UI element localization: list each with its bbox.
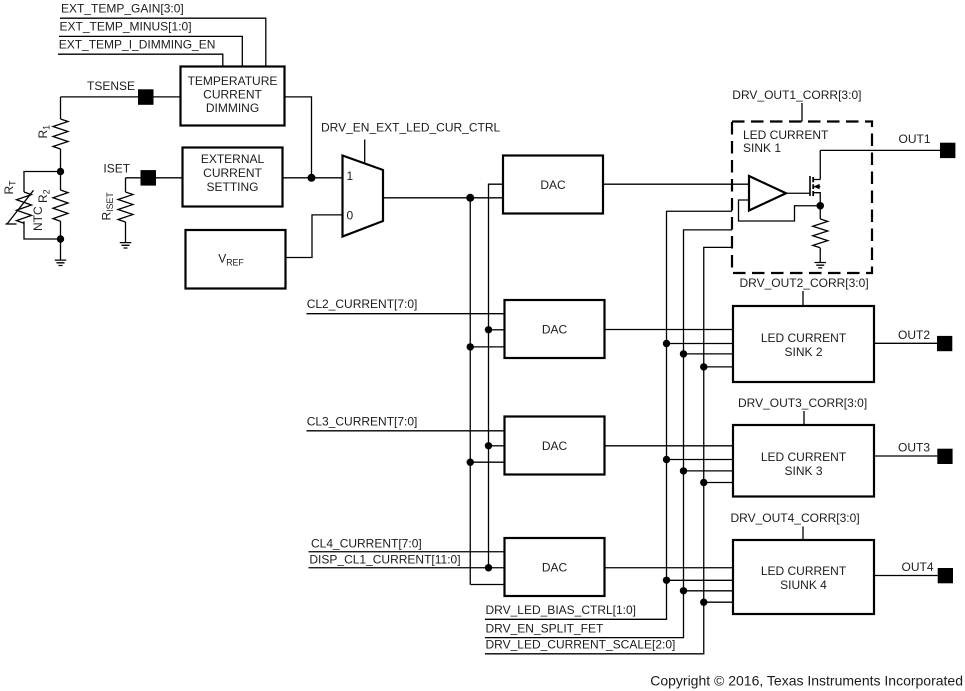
wire op-amp output to gate bbox=[786, 192, 810, 194]
mux U2 (2:1 selector) bbox=[343, 156, 384, 237]
svg-text:CURRENT: CURRENT bbox=[203, 88, 262, 102]
wire VREF output to mux input 0 bbox=[286, 215, 343, 258]
svg-text:EXT_TEMP_I_DIMMING_EN: EXT_TEMP_I_DIMMING_EN bbox=[59, 38, 216, 52]
wire ECS output to mux input 1 bbox=[283, 177, 343, 179]
wire SCALE branch to sink4 bbox=[704, 601, 733, 603]
svg-text:DAC: DAC bbox=[542, 323, 568, 337]
thermistor RT (NTC) bbox=[2, 172, 61, 240]
wire SCALE branch to sink2 bbox=[704, 366, 733, 368]
node SCALE/sink4 bbox=[700, 599, 707, 606]
wire SPLIT_FET branch to sink2 bbox=[684, 353, 734, 355]
signal EXT_TEMP_I_DIMMING_EN bbox=[58, 38, 223, 67]
node DISP_CL1 junction bbox=[485, 564, 492, 571]
svg-text:LED CURRENT: LED CURRENT bbox=[761, 450, 847, 464]
signal DRV_OUT1_CORR[3:0] bbox=[732, 88, 861, 122]
wire DAC3 output to sink3 bbox=[605, 445, 734, 447]
svg-text:CL2_CURRENT[7:0]: CL2_CURRENT[7:0] bbox=[307, 297, 418, 311]
block DAC 1 bbox=[503, 156, 603, 214]
node R2/RT bottom junction bbox=[57, 235, 64, 242]
node MOSFET source junction bbox=[816, 202, 824, 210]
block LED CURRENT SINK 3 bbox=[733, 425, 874, 497]
node branch DAC3 input bbox=[485, 442, 492, 449]
block DAC 4 bbox=[505, 538, 605, 596]
svg-text:EXT_TEMP_MINUS[1:0]: EXT_TEMP_MINUS[1:0] bbox=[60, 20, 192, 34]
svg-text:NTC: NTC bbox=[31, 206, 45, 231]
svg-text:EXTERNAL: EXTERNAL bbox=[201, 152, 265, 166]
svg-text:DRV_OUT1_CORR[3:0]: DRV_OUT1_CORR[3:0] bbox=[732, 88, 861, 102]
block LED CURRENT SINK 1 (dashed) bbox=[732, 122, 872, 274]
signal CL4_CURRENT[7:0] bbox=[309, 536, 505, 551]
svg-text:LED CURRENT: LED CURRENT bbox=[743, 128, 829, 142]
signal EXT_TEMP_GAIN[3:0] bbox=[60, 2, 266, 67]
svg-text:SINK 1: SINK 1 bbox=[743, 141, 781, 155]
wire SCALE branch to sink3 bbox=[704, 482, 733, 484]
svg-text:SINK 3: SINK 3 bbox=[784, 464, 822, 478]
resistor R3 (sink1 sense) bbox=[813, 206, 828, 263]
node BIAS/sink3 bbox=[663, 456, 670, 463]
block EXTERNAL CURRENT SETTING bbox=[183, 148, 283, 207]
svg-text:OUT2: OUT2 bbox=[898, 328, 930, 342]
ground (R2 bottom) bbox=[55, 239, 67, 266]
signal DISP_CL1_CURRENT[11:0] bbox=[309, 552, 505, 567]
svg-text:TSENSE: TSENSE bbox=[87, 79, 135, 93]
wire branch to DAC3 bbox=[470, 461, 504, 463]
svg-text:DAC: DAC bbox=[542, 561, 568, 575]
signal DRV_EN_SPLIT_FET bus bbox=[485, 230, 732, 638]
signal DRV_OUT2_CORR[3:0] bbox=[740, 276, 869, 306]
block DAC 2 bbox=[505, 300, 605, 358]
svg-text:Copyright © 2016, Texas Instru: Copyright © 2016, Texas Instruments Inco… bbox=[650, 673, 963, 689]
wire SPLIT_FET branch to sink3 bbox=[684, 470, 734, 472]
signal DRV_OUT4_CORR[3:0] bbox=[731, 511, 860, 540]
signal DRV_EN_EXT_LED_CUR_CTRL (mux select) bbox=[321, 121, 501, 165]
node TSENSE bbox=[61, 79, 181, 105]
wire DAC2 output to sink2 bbox=[605, 329, 734, 331]
wire branch to DAC2 input bbox=[489, 329, 505, 331]
svg-text:OUT3: OUT3 bbox=[898, 440, 930, 454]
node R1/R2/RT junction bbox=[57, 168, 64, 175]
wire branch to DAC2 bbox=[470, 346, 504, 348]
node branch DAC2 bbox=[467, 343, 474, 350]
node BIAS/sink4 bbox=[663, 577, 670, 584]
wire DAC1 output to op-amp bbox=[603, 183, 749, 185]
svg-text:DISP_CL1_CURRENT[11:0]: DISP_CL1_CURRENT[11:0] bbox=[309, 552, 460, 566]
svg-text:CL4_CURRENT[7:0]: CL4_CURRENT[7:0] bbox=[311, 536, 422, 550]
svg-text:0: 0 bbox=[347, 208, 354, 222]
svg-text:ISET: ISET bbox=[103, 162, 130, 176]
svg-text:DRV_LED_CURRENT_SCALE[2:0]: DRV_LED_CURRENT_SCALE[2:0] bbox=[486, 638, 676, 652]
node OUT4 bbox=[874, 560, 953, 583]
svg-text:1: 1 bbox=[347, 169, 354, 183]
wire branch to DAC4 bbox=[470, 584, 504, 586]
node OUT1 bbox=[820, 132, 955, 158]
wire R1 to junction bbox=[60, 149, 62, 190]
node SCALE/sink2 bbox=[700, 363, 707, 370]
node SPLIT_FET/sink2 bbox=[680, 350, 687, 357]
svg-text:SINK 2: SINK 2 bbox=[784, 345, 822, 359]
wire BIAS branch to sink2 bbox=[667, 343, 734, 345]
node mux output junction bbox=[466, 194, 474, 202]
svg-text:DRV_EN_SPLIT_FET: DRV_EN_SPLIT_FET bbox=[486, 621, 604, 635]
signal CL3_CURRENT[7:0] bbox=[307, 415, 505, 431]
svg-text:DRV_LED_BIAS_CTRL[1:0]: DRV_LED_BIAS_CTRL[1:0] bbox=[486, 603, 637, 617]
svg-text:DRV_OUT2_CORR[3:0]: DRV_OUT2_CORR[3:0] bbox=[740, 276, 869, 290]
svg-text:DAC: DAC bbox=[542, 439, 568, 453]
svg-text:LED CURRENT: LED CURRENT bbox=[761, 331, 847, 345]
resistor R2 bbox=[36, 189, 68, 221]
signal DRV_OUT3_CORR[3:0] bbox=[738, 396, 867, 425]
wire DAC4 output to sink4 bbox=[605, 567, 734, 569]
svg-text:DAC: DAC bbox=[540, 178, 566, 192]
node SCALE/sink3 bbox=[700, 479, 707, 486]
transistor M1 (NMOS) bbox=[810, 176, 820, 206]
block TEMPERATURE CURRENT DIMMING bbox=[181, 67, 285, 126]
svg-text:CL3_CURRENT[7:0]: CL3_CURRENT[7:0] bbox=[307, 415, 418, 429]
signal DRV_LED_BIAS_CTRL[1:0] bus bbox=[485, 211, 732, 619]
block VREF bbox=[186, 230, 286, 289]
wire branch to DAC3 input bbox=[489, 445, 505, 447]
signal EXT_TEMP_MINUS[1:0] bbox=[59, 20, 242, 67]
svg-text:DRV_OUT3_CORR[3:0]: DRV_OUT3_CORR[3:0] bbox=[738, 396, 867, 410]
svg-text:DRV_EN_EXT_LED_CUR_CTRL: DRV_EN_EXT_LED_CUR_CTRL bbox=[321, 121, 501, 135]
ground (RISET) bbox=[120, 243, 132, 248]
resistor RISET bbox=[100, 178, 134, 243]
node BIAS/sink2 bbox=[663, 340, 670, 347]
signal CL2_CURRENT[7:0] bbox=[307, 297, 505, 314]
block LED CURRENT SIUNK 4 bbox=[733, 540, 874, 614]
node branch DAC2 input bbox=[485, 326, 492, 333]
wire TEMP DIMMING output bbox=[285, 97, 312, 178]
block DAC 3 bbox=[505, 417, 605, 475]
svg-text:DIMMING: DIMMING bbox=[206, 101, 259, 115]
wire BIAS branch to sink3 bbox=[667, 459, 734, 461]
wire TSENSE to R1 bbox=[60, 97, 62, 119]
svg-text:SIUNK 4: SIUNK 4 bbox=[780, 578, 827, 592]
svg-text:SETTING: SETTING bbox=[206, 180, 258, 194]
wire drain to OUT1 bbox=[819, 150, 821, 179]
wire op-amp feedback bbox=[739, 200, 821, 221]
node branch DAC3 bbox=[467, 459, 474, 466]
wire R2 to ground node bbox=[60, 221, 62, 239]
ground (sink1) bbox=[815, 263, 827, 268]
block LED CURRENT SINK 2 bbox=[733, 306, 874, 382]
svg-text:CURRENT: CURRENT bbox=[203, 166, 262, 180]
svg-text:DRV_OUT4_CORR[3:0]: DRV_OUT4_CORR[3:0] bbox=[731, 511, 860, 525]
wire BIAS branch to sink4 bbox=[667, 579, 734, 581]
svg-text:EXT_TEMP_GAIN[3:0]: EXT_TEMP_GAIN[3:0] bbox=[61, 2, 184, 16]
svg-text:OUT4: OUT4 bbox=[902, 560, 934, 574]
op-amp U1 bbox=[749, 176, 786, 211]
node SPLIT_FET/sink4 bbox=[680, 587, 687, 594]
signal DRV_LED_CURRENT_SCALE[2:0] bus bbox=[485, 247, 732, 653]
node TEMP/ECS junction bbox=[308, 174, 316, 182]
svg-text:LED CURRENT: LED CURRENT bbox=[761, 564, 847, 578]
wire DISP_CL1 bus (vertical x=488.5) bbox=[489, 184, 504, 568]
node OUT3 bbox=[874, 440, 953, 464]
node OUT2 bbox=[874, 328, 952, 351]
resistor R1 bbox=[36, 119, 68, 149]
wire SPLIT_FET branch to sink4 bbox=[684, 590, 734, 592]
svg-text:TEMPERATURE: TEMPERATURE bbox=[188, 74, 278, 88]
svg-text:OUT1: OUT1 bbox=[899, 132, 931, 146]
node SPLIT_FET/sink3 bbox=[680, 467, 687, 474]
wire mux output to DAC1 bbox=[383, 197, 503, 199]
wire current-set bus (vertical x=470) bbox=[469, 198, 471, 585]
node ISET bbox=[103, 162, 182, 186]
